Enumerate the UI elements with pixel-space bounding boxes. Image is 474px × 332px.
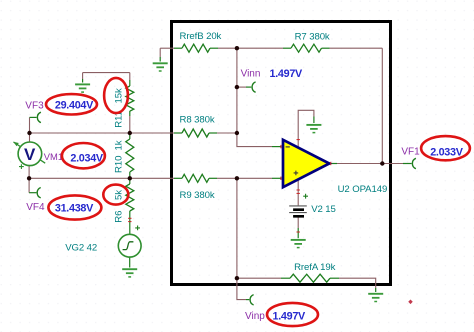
svg-text:2.033V: 2.033V xyxy=(430,147,464,159)
svg-text:Vinn: Vinn xyxy=(241,69,261,80)
svg-text:2.034V: 2.034V xyxy=(70,153,104,165)
lead VG2 bottom xyxy=(129,257,131,267)
lead RrefB right xyxy=(210,47,218,49)
svg-text:V: V xyxy=(24,145,36,164)
svg-text:R7 380k: R7 380k xyxy=(295,32,330,43)
node Vinn tap xyxy=(235,85,239,89)
svg-text:V2 15: V2 15 xyxy=(311,204,336,215)
lead V- ground xyxy=(313,117,315,124)
lead non-inverting input xyxy=(272,177,282,179)
ground G5 (VG2 bottom) xyxy=(122,269,137,277)
ellipse around 2.033V xyxy=(421,136,470,160)
node T (RrefB/R7/feedback) xyxy=(235,46,239,50)
ellipse around 15k xyxy=(104,78,128,113)
ellipse around 1.497V (Vinp) xyxy=(267,303,318,326)
wire drop to inverting input xyxy=(237,133,272,147)
lead RrefA left xyxy=(281,277,290,279)
ground G2 (R11 top) xyxy=(75,84,90,92)
lead R7 left xyxy=(283,47,291,49)
pin VF3 arc xyxy=(37,112,41,122)
source VG2 xyxy=(118,226,141,258)
op-amp plus sign xyxy=(294,171,299,176)
svg-text:29.404V: 29.404V xyxy=(55,100,94,112)
lead G1 ground xyxy=(159,57,161,62)
lead R11 top xyxy=(129,80,131,86)
wire RrefA row right xyxy=(339,278,376,288)
svg-text:VF1: VF1 xyxy=(401,147,420,158)
lead R8 left xyxy=(174,132,182,134)
lead RrefB left xyxy=(174,47,182,49)
svg-text:R6: R6 xyxy=(114,211,125,223)
wire node down to RrefA row xyxy=(236,178,238,278)
svg-text:1.497V: 1.497V xyxy=(270,68,304,80)
wire RrefA row left xyxy=(237,277,281,279)
lead R8 right xyxy=(209,132,217,134)
wire ground G1 riser xyxy=(159,48,161,57)
lead RrefA ground xyxy=(375,288,377,292)
lead R11 bottom xyxy=(129,111,131,116)
node R10 top xyxy=(128,131,132,135)
lead Vinn pin xyxy=(246,86,251,88)
wire node T down to R8 row xyxy=(236,48,238,133)
svg-text:VG2 42: VG2 42 xyxy=(65,242,97,253)
lead G2 ground xyxy=(82,79,84,83)
svg-text:R10: R10 xyxy=(114,156,125,173)
node R10 bottom xyxy=(128,176,132,180)
lead R6 top xyxy=(129,178,131,184)
wire R11 top link xyxy=(83,73,130,80)
wire top row left of RrefB xyxy=(160,47,174,49)
wire op-amp V+ to battery xyxy=(297,179,299,205)
resistor RrefB 20k xyxy=(182,44,210,52)
lead R9 right xyxy=(209,177,217,179)
svg-text:R9 380k: R9 380k xyxy=(180,190,215,201)
ground G6 (RrefA right) xyxy=(368,294,383,302)
svg-text:31.438V: 31.438V xyxy=(55,203,94,215)
lead RrefA right xyxy=(330,277,339,279)
svg-text:1.497V: 1.497V xyxy=(273,311,307,323)
svg-text:Vinp: Vinp xyxy=(245,311,265,322)
wire battery bottom xyxy=(297,217,299,228)
wire RrefB to node T xyxy=(218,47,283,49)
wire R9 to node xyxy=(217,177,237,179)
lead V2 ground xyxy=(297,228,299,238)
op-amp U2 OPA149 triangle xyxy=(283,140,329,187)
ellipse around 31.438V xyxy=(48,195,101,219)
svg-text:U2 OPA149: U2 OPA149 xyxy=(338,184,388,195)
lead VF3 pin xyxy=(30,116,37,118)
svg-text:15k: 15k xyxy=(114,88,125,103)
resistor R11 15k (vertical) xyxy=(126,86,134,111)
ground G3 (op-amp V-) xyxy=(306,125,321,133)
lead R10 bottom xyxy=(129,172,131,178)
lead VF1 pin xyxy=(403,163,412,165)
red stray mark xyxy=(408,300,413,305)
ellipse around 29.404V xyxy=(46,94,97,114)
GREEN LEADS / STUBS xyxy=(29,48,412,299)
svg-text:RrefA 19k: RrefA 19k xyxy=(294,262,336,273)
wire R8 row left section xyxy=(30,132,175,134)
node output xyxy=(380,161,384,165)
wire to non-inverting input xyxy=(237,177,272,179)
battery V2 xyxy=(289,206,307,216)
resistor R9 380k xyxy=(182,174,209,182)
RED HIGHLIGHT ELLIPSES xyxy=(46,78,470,326)
wire R8 to node xyxy=(217,132,237,134)
ellipse around 2.034V xyxy=(62,143,105,168)
node R8 xyxy=(235,131,239,135)
svg-text:RrefB 20k: RrefB 20k xyxy=(180,31,222,42)
lead output tip xyxy=(329,163,337,165)
node R9 xyxy=(235,176,239,180)
ellipse around 5k xyxy=(103,185,128,205)
battery plus label xyxy=(303,194,308,199)
wire VF3 riser xyxy=(29,117,31,133)
node RrefA xyxy=(235,276,239,280)
lead R6 bottom / VG2 top pin xyxy=(129,211,131,234)
lead Vinp pin xyxy=(246,299,249,301)
resistor R8 380k xyxy=(182,129,209,137)
lead R10 top xyxy=(129,133,131,139)
wire VM1 bottom lead xyxy=(28,166,30,179)
wire VF4 drop xyxy=(28,178,30,192)
wire VM1 top lead xyxy=(29,133,31,142)
lead R7 right xyxy=(322,47,330,49)
svg-text:5k: 5k xyxy=(114,190,125,200)
resistor R6 5k (vertical) xyxy=(126,184,134,211)
wire output to feedback node xyxy=(337,163,403,165)
pin VF4 arc xyxy=(37,188,41,198)
wire feedback vertical xyxy=(381,48,383,163)
svg-text:VM1: VM1 xyxy=(44,151,63,162)
wire Vinn stub xyxy=(237,86,246,88)
lead VF4 pin xyxy=(29,192,36,194)
ground G1 (left of RrefB) xyxy=(153,63,168,71)
wire R7 to right corner xyxy=(330,47,383,49)
wire R11 to R10 node xyxy=(129,116,131,133)
wire R9 row left section xyxy=(29,177,174,179)
node VF3/VM1 xyxy=(27,131,31,135)
lead inverting input xyxy=(272,146,282,148)
wire down to Vinp pin xyxy=(237,278,246,299)
wire op-amp V- riser xyxy=(298,110,314,147)
resistor RrefA 19k xyxy=(290,274,330,282)
svg-text:R8 380k: R8 380k xyxy=(180,115,215,126)
op-amp minus sign xyxy=(286,146,290,148)
svg-text:VF3: VF3 xyxy=(25,101,44,112)
pin Vinp arc xyxy=(250,295,254,305)
pin Vinn arc xyxy=(252,82,256,92)
macro box outline xyxy=(172,22,391,285)
red pin tick marks xyxy=(128,140,331,232)
resistor R7 380k xyxy=(291,44,322,52)
node VM1 bottom xyxy=(27,176,31,180)
resistor R10 1k (vertical) xyxy=(126,139,134,172)
svg-text:VF4: VF4 xyxy=(26,202,45,213)
ground G4 (V2 bottom) xyxy=(291,240,306,248)
svg-text:1k: 1k xyxy=(114,140,125,150)
lead R9 left xyxy=(174,177,182,179)
voltmeter VM1 xyxy=(13,142,45,169)
pin VF1 arc xyxy=(412,158,416,168)
